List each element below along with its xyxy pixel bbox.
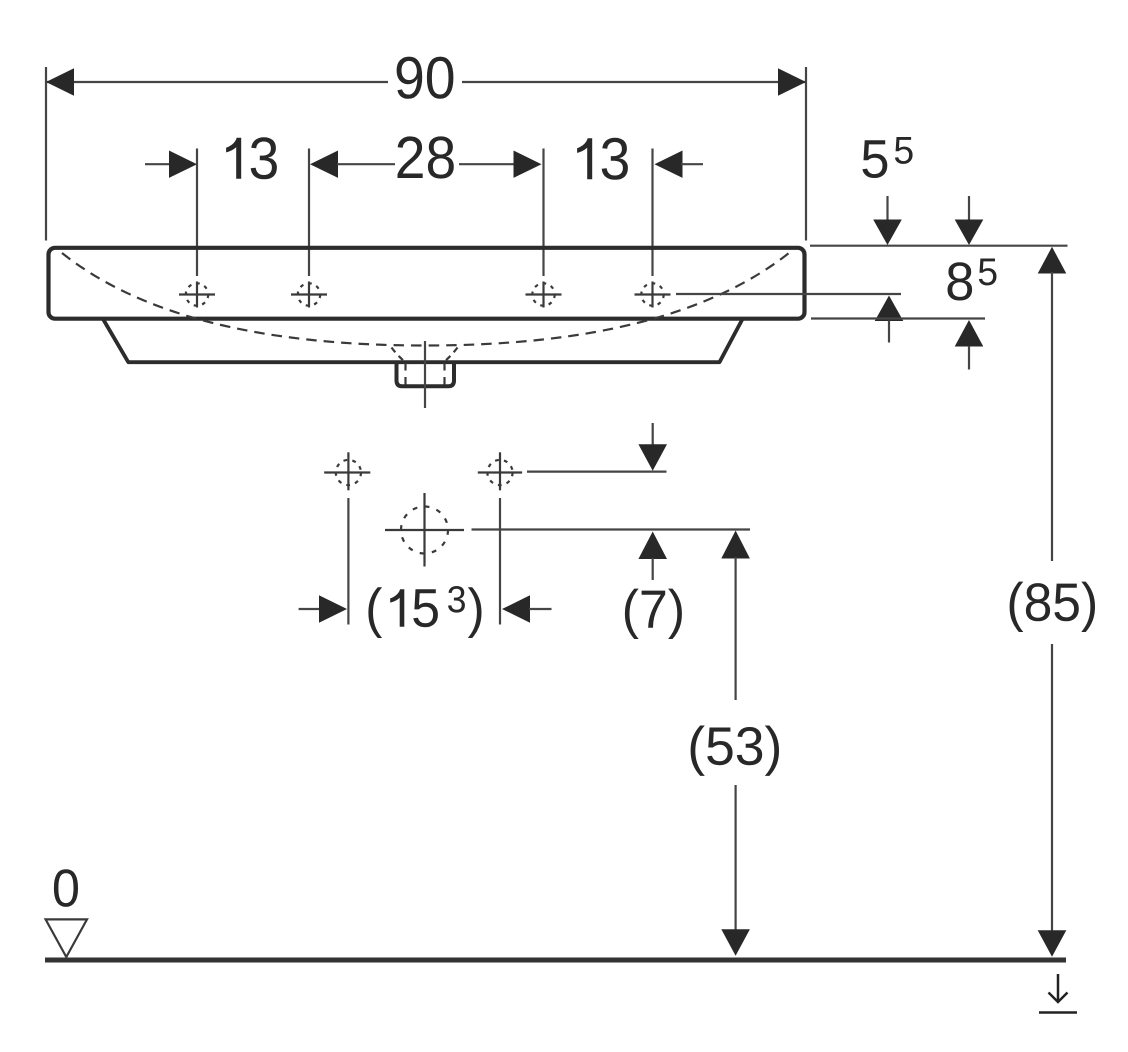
drain box — [397, 362, 455, 386]
wire: extension line left of 90 — [45, 67, 47, 241]
node: label (7) — [625, 589, 682, 639]
basin rim outline — [49, 248, 805, 319]
node: 7 top down-arrow — [652, 423, 654, 446]
wire: 90 dimension line — [46, 81, 806, 83]
hole symbol 4 — [635, 282, 671, 308]
node: label (85) — [1010, 582, 1095, 632]
wire: top reference line — [810, 245, 1068, 247]
wire: 85 dim line upper — [1051, 272, 1053, 561]
node: label (15^3) — [368, 586, 481, 638]
wire: extension line right of 90 — [805, 67, 807, 241]
wire: 85 dim line lower — [1051, 644, 1053, 931]
node: label (53) — [691, 726, 779, 776]
wire: ref line at dashed circle level — [472, 528, 751, 530]
node: 53 top up-arrowhead — [721, 531, 750, 559]
drain center line — [424, 341, 426, 408]
wire: hole level reference line — [676, 293, 901, 295]
basin apron trapezoid — [103, 319, 743, 362]
node: 90 left arrowhead — [46, 68, 74, 95]
lower hole symbol right — [478, 452, 522, 490]
drain funnel dashed left — [392, 348, 405, 362]
lower hole symbol left — [324, 452, 370, 490]
node: 7 bottom up-arrow — [638, 532, 667, 560]
wire: 28 left dim segment — [337, 163, 395, 165]
node: label 13 first — [226, 137, 277, 179]
wire: 15_3 right tail — [529, 608, 552, 610]
node: label 5^5 — [862, 137, 912, 178]
node: 85 top up-arrowhead — [1038, 247, 1067, 274]
node: 28 right arrowhead — [514, 151, 542, 178]
node: datum triangle — [46, 919, 87, 957]
node: drop symbol bottom right — [1039, 974, 1077, 1013]
node: 8_5 up arrow B — [955, 320, 984, 347]
wire: 53 dim line lower — [734, 785, 736, 931]
node: 13 right arrowhead — [655, 151, 683, 178]
node: label 0 — [54, 869, 78, 907]
basin interior dashed curve — [62, 253, 789, 346]
large dashed circle — [385, 493, 464, 567]
wire: extension line hole4 — [651, 149, 653, 277]
node: label 13 second — [577, 138, 628, 180]
wire: extension line hole2 — [308, 149, 310, 277]
wire: 53 dim line upper — [734, 557, 736, 700]
wire: extension line below lower-left hole — [347, 498, 349, 625]
drain funnel dashed right — [445, 348, 458, 362]
ground line — [45, 958, 1066, 963]
node: label 28 — [398, 136, 454, 178]
wire: extension line hole1 — [196, 149, 198, 277]
node: 85 bottom down-arrowhead — [1038, 930, 1067, 957]
node: 5_5 down arrow A — [886, 196, 888, 222]
node: 90 right arrowhead — [778, 68, 806, 95]
node: label 8^5 — [948, 259, 997, 301]
node: 13 left arrowhead — [169, 151, 197, 178]
node: 28 left arrowhead — [310, 151, 338, 178]
wire: 13 left dim tail — [145, 163, 171, 165]
drain dashed inner left — [404, 363, 406, 385]
node: 15_3 right arrowhead — [502, 595, 530, 622]
wire: 13 right dim tail — [681, 163, 703, 165]
wire: rim bottom reference line — [811, 317, 985, 319]
wire: 28 right dim segment — [459, 163, 516, 165]
node: 5_5 down arrow B — [968, 196, 970, 222]
wire: extension line hole3 — [542, 149, 544, 277]
node: label 90 — [397, 57, 454, 99]
hole symbol 3 — [526, 282, 562, 308]
wire: extension line below lower-right hole — [499, 498, 501, 625]
hole symbol 1 — [179, 282, 215, 308]
wire: ref line from lower-right hole — [527, 471, 667, 473]
wire: 15_3 left tail — [299, 608, 322, 610]
node: 53 bottom down-arrowhead — [721, 929, 750, 956]
node: 5_5 up arrow A — [875, 296, 904, 322]
hole symbol 2 — [291, 282, 327, 308]
drain dashed inner right — [443, 363, 445, 385]
node: 15_3 left arrowhead — [319, 595, 347, 622]
